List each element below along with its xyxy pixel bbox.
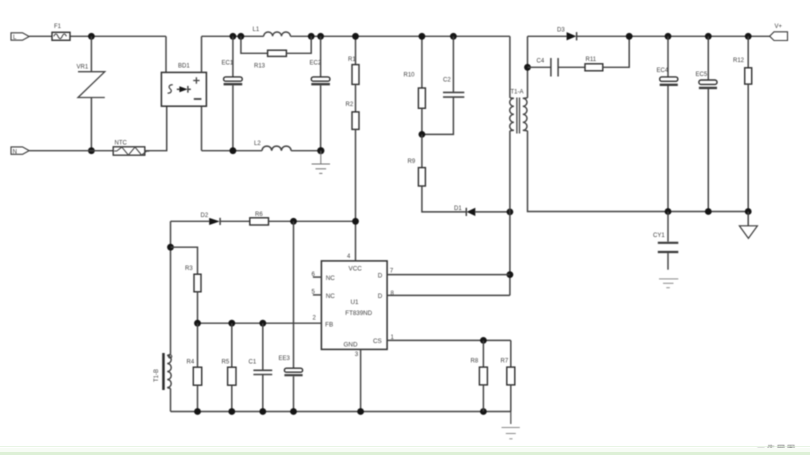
diode D2 xyxy=(201,213,250,225)
svg-text:R8: R8 xyxy=(471,359,479,365)
svg-text:R9: R9 xyxy=(408,159,416,165)
node drain / pin7 junction xyxy=(507,271,514,278)
svg-text:NC: NC xyxy=(326,293,336,300)
wire T1-B bottom to gnd rail xyxy=(170,389,172,412)
svg-text:EC5: EC5 xyxy=(696,72,708,78)
ground (primary) xyxy=(502,412,520,439)
svg-text:R11: R11 xyxy=(586,57,597,63)
svg-text:GND: GND xyxy=(344,342,358,349)
svg-text:CY1: CY1 xyxy=(653,233,665,239)
pin 6 NC stub xyxy=(312,272,322,278)
node C4 snubber tap xyxy=(524,64,531,71)
svg-text:4: 4 xyxy=(347,254,351,260)
svg-text:C2: C2 xyxy=(443,77,451,83)
svg-text:EC4: EC4 xyxy=(657,68,669,74)
svg-text:R2: R2 xyxy=(346,102,354,108)
capacitor C2 xyxy=(422,36,464,134)
wire T1-A secondary top up to D3 rail xyxy=(527,36,529,98)
wire primary gnd rail xyxy=(171,411,511,413)
node EC5 top xyxy=(705,33,712,40)
svg-text:CS: CS xyxy=(373,338,382,345)
capacitor CY1 xyxy=(653,212,678,270)
svg-text:F1: F1 xyxy=(54,24,62,30)
resistor R4 xyxy=(187,323,202,411)
svg-text:BD1: BD1 xyxy=(178,64,190,70)
capacitor C1 xyxy=(249,323,273,411)
node CS/R8 xyxy=(480,337,487,344)
node R12 bottom / output gnd xyxy=(745,208,752,215)
node R13 branch top-left xyxy=(238,33,245,40)
svg-text:L1: L1 xyxy=(253,27,260,33)
bridge rectifier BD1 xyxy=(161,64,206,107)
svg-text:D: D xyxy=(378,293,383,300)
svg-text:EE3: EE3 xyxy=(279,356,291,362)
node U1 GND xyxy=(357,408,364,415)
varistor VR1 xyxy=(77,36,105,150)
svg-text:R10: R10 xyxy=(404,73,416,79)
node EC4 top xyxy=(665,33,672,40)
wire T1-A primary bottom down to D pins xyxy=(509,131,511,296)
resistor R3 xyxy=(171,247,202,323)
svg-text:R3: R3 xyxy=(185,266,193,272)
node R3/R4 xyxy=(194,320,201,327)
node R10 top xyxy=(419,33,426,40)
svg-text:L2: L2 xyxy=(254,141,261,147)
node drain/D1 junction xyxy=(507,209,514,216)
inductor L2 xyxy=(254,141,291,151)
svg-text:R7: R7 xyxy=(501,359,509,365)
transformer T1-B xyxy=(154,353,172,390)
wire R1 to R2 xyxy=(355,84,357,112)
svg-text:T1-A: T1-A xyxy=(511,89,524,95)
resistor R6 xyxy=(250,212,356,225)
svg-text:R4: R4 xyxy=(187,359,195,365)
node R10/C2 bottom junction xyxy=(419,131,426,138)
wire top rail corner down to T1-A primary xyxy=(509,36,511,98)
inductor L1 xyxy=(253,27,291,36)
terminal V+ xyxy=(770,24,788,41)
svg-text:EC1: EC1 xyxy=(222,61,234,67)
svg-text:7: 7 xyxy=(390,269,394,275)
svg-text:NC: NC xyxy=(326,275,336,282)
svg-text:FB: FB xyxy=(325,321,333,328)
svg-text:D1: D1 xyxy=(454,206,462,212)
terminal L xyxy=(11,33,29,41)
thermistor NTC xyxy=(113,140,149,155)
svg-text:N: N xyxy=(13,149,17,155)
resistor R7 xyxy=(501,340,515,411)
wire NTC to BD1 xyxy=(145,106,167,151)
node EC1 bottom xyxy=(230,147,237,154)
resistor R8 xyxy=(471,340,488,411)
diode D1 xyxy=(454,206,510,216)
resistor R9 xyxy=(408,134,467,212)
node R11 rejoin xyxy=(626,33,633,40)
svg-text:NTC: NTC xyxy=(115,140,128,146)
wire secondary return rail xyxy=(528,131,749,212)
node EE3 bottom xyxy=(290,408,297,415)
capacitor EC1 xyxy=(222,36,243,150)
resistor R5 xyxy=(222,323,237,411)
ground (input filter) xyxy=(312,151,330,174)
output ground triangle xyxy=(739,212,757,239)
svg-text:FT839ND: FT839ND xyxy=(345,310,372,317)
wire output V+ rail xyxy=(577,35,770,37)
pin 7 wire D xyxy=(387,269,510,275)
node R5 bottom xyxy=(228,408,235,415)
svg-text:U1: U1 xyxy=(351,299,360,306)
svg-text:3: 3 xyxy=(355,351,359,358)
wire down into BD1 top-left xyxy=(165,36,167,72)
svg-text:VCC: VCC xyxy=(349,266,363,273)
capacitor EC2 xyxy=(310,36,330,150)
svg-text:VR1: VR1 xyxy=(77,64,89,70)
node VR1/N junction xyxy=(88,147,95,154)
ground (CY1) xyxy=(659,279,678,288)
svg-text:T1-B: T1-B xyxy=(154,369,160,382)
wire DC return rail right of L2 xyxy=(291,150,321,152)
pin 8 wire D xyxy=(387,291,510,297)
resistor R1 xyxy=(348,36,359,84)
footer green band xyxy=(0,446,810,447)
svg-text:D2: D2 xyxy=(201,213,209,219)
svg-text:R5: R5 xyxy=(222,359,230,365)
wire N to NTC xyxy=(29,150,113,152)
node EC2 top xyxy=(317,33,324,40)
svg-text:D: D xyxy=(378,273,383,280)
transformer T1-A xyxy=(510,89,528,133)
svg-text:2: 2 xyxy=(313,316,317,322)
node R5 top xyxy=(228,320,235,327)
diode D3 xyxy=(528,28,577,41)
node C2 top xyxy=(450,33,457,40)
op IC U1 FT839ND xyxy=(321,254,387,349)
node EC2 bottom / ground tap xyxy=(317,147,324,154)
node R3 branch xyxy=(167,244,174,251)
fuse F1 xyxy=(52,24,70,41)
wire BD1 plus output up to DC rail xyxy=(201,36,203,72)
resistor R11 xyxy=(558,36,629,71)
wire DC+ rail left of L1 xyxy=(202,35,264,37)
wire L to bridge corner xyxy=(29,35,166,37)
wire BD1 minus output down to return rail xyxy=(201,106,203,151)
svg-text:C1: C1 xyxy=(249,359,257,365)
resistor R2 xyxy=(346,102,360,221)
wire FB rail xyxy=(198,322,322,324)
capacitor EC5 xyxy=(696,36,718,211)
capacitor EC4 xyxy=(657,36,678,211)
node C1 top xyxy=(259,320,266,327)
resistor R10 xyxy=(404,36,426,134)
terminal N xyxy=(11,147,29,155)
node EC1 top xyxy=(230,33,237,40)
svg-text:R12: R12 xyxy=(733,58,745,64)
capacitor EE3 xyxy=(279,221,303,411)
node VCC feed xyxy=(352,218,359,225)
node L/VR1 junction xyxy=(88,33,95,40)
node EC5 bottom xyxy=(705,208,712,215)
pin 1 wire CS xyxy=(387,335,511,341)
capacitor C4 xyxy=(528,58,559,77)
wire DC+ rail right of L1 xyxy=(290,35,510,37)
resistor R13 bypass xyxy=(241,36,311,69)
node R8 bottom xyxy=(480,408,487,415)
node R4 bottom xyxy=(194,408,201,415)
svg-text:R13: R13 xyxy=(254,63,266,69)
svg-text:D3: D3 xyxy=(557,28,565,34)
svg-text:C4: C4 xyxy=(537,59,545,65)
wire aux winding vertical xyxy=(170,221,172,354)
node EE3 top xyxy=(290,218,297,225)
pin 5 NC stub xyxy=(312,290,322,296)
wire aux supply corner xyxy=(171,220,210,222)
node R1 top xyxy=(352,33,359,40)
node CY1/EC4 bottom xyxy=(665,208,672,215)
pin 3 wire GND xyxy=(355,349,361,411)
svg-text:V+: V+ xyxy=(775,24,783,30)
svg-text:8: 8 xyxy=(391,291,395,297)
wire VCC pin 4 xyxy=(355,221,357,261)
resistor R12 xyxy=(733,36,752,211)
wire DC return rail left of L2 xyxy=(202,150,263,152)
node R13 rejoin xyxy=(308,33,315,40)
node R12 top xyxy=(745,33,752,40)
node C1 bottom xyxy=(259,408,266,415)
